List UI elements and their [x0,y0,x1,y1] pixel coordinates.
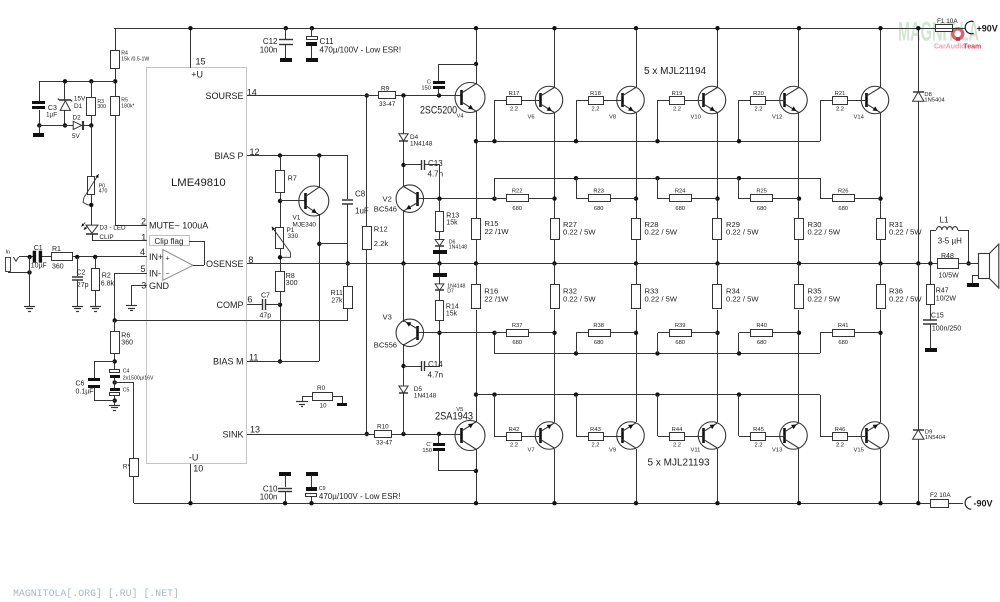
resistor R36 0.22/5W emitter [877,285,886,309]
watermark MAGNITOLA CarAudio Team [898,17,981,51]
wire R7 to V1 base [280,192,282,228]
resistor R29 0.22/5W emitter [713,219,722,240]
transistor V1 MJE340 [299,186,329,216]
transistor V2 BC546 [396,185,424,213]
resistor R23 680 [574,176,578,180]
svg-text:+90V: +90V [977,24,998,34]
svg-text:R8: R8 [286,273,295,280]
svg-text:IN+: IN+ [149,252,163,262]
svg-text:-90V: -90V [974,499,993,509]
resistor R10 33-47 [375,431,392,438]
wire V6 collector to +rail [554,28,556,87]
ground bar under C3 [39,125,41,133]
transistor V10 MJL21194 [698,86,726,114]
svg-text:1N4148: 1N4148 [410,141,433,148]
svg-text:2.2: 2.2 [591,107,599,113]
wire V1 base [280,200,305,202]
ground input jack [24,306,35,308]
transistor V4 2SC5200 [455,83,485,113]
svg-text:V15: V15 [854,448,864,454]
svg-text:680: 680 [594,340,604,346]
transistor V9 MJL21193 [617,422,645,450]
svg-text:Team: Team [964,44,982,51]
svg-text:2.2: 2.2 [754,443,762,449]
potentiometer P1 330 [276,228,284,249]
svg-text:680: 680 [757,340,767,346]
resistor R48 10/5W [938,259,959,269]
svg-text:680: 680 [512,206,522,212]
svg-text:L1: L1 [940,216,949,225]
resistor R15 22/1W [472,219,481,240]
capacitor C10 100n [285,475,287,487]
ground under R2 [90,306,101,308]
resistor R1 360 [52,253,73,261]
wire C4/C5 midpoint to R* [115,382,133,384]
svg-text:BIAS M: BIAS M [213,357,244,367]
wire V1 collector to BIAS P [319,156,321,188]
capacitor C6 0.1uF [94,361,115,363]
svg-text:COMP: COMP [217,300,244,310]
resistor R35 0.22/5W emitter [795,285,804,309]
resistor R42 2.2 base [492,392,496,396]
resistor R20 2.2 base [738,100,740,141]
svg-text:CarAudio: CarAudio [934,44,966,51]
svg-text:−: − [166,271,170,278]
wire left rail y81 [39,81,115,83]
svg-text:R21: R21 [835,91,846,97]
inductor L1 3-5uH [928,261,932,265]
svg-text:R38: R38 [593,323,604,329]
svg-text:IN-: IN- [149,269,161,279]
svg-text:R13: R13 [446,213,459,220]
wire D3 to pin 1 [92,234,94,241]
ground bar R0 right [337,403,347,406]
capacitor C9 470u [311,475,313,487]
svg-text:V11: V11 [691,448,701,454]
wire V9 collector to -rail [636,449,638,503]
resistor R34 0.22/5W emitter [713,285,722,309]
svg-text:R39: R39 [675,323,686,329]
svg-text:R47: R47 [936,288,949,295]
svg-text:15k: 15k [446,220,458,227]
op-amp triangle symbol [163,250,193,281]
svg-text:R1: R1 [52,246,61,253]
wire SOURSE pin 14 [247,95,462,97]
capacitor C12 100n [284,26,288,30]
wire V1 emitter down [319,214,321,361]
svg-text:680: 680 [838,340,848,346]
svg-text:6.8k: 6.8k [101,281,115,288]
transistor V14 MJL21194 [861,86,889,114]
svg-text:R6: R6 [121,333,130,340]
resistor R2 6.8k [95,257,97,268]
resistor R25 680 [737,176,741,180]
diode D6 1N4148 [439,231,441,240]
svg-text:4.7n: 4.7n [428,371,444,380]
svg-text:R22: R22 [512,189,523,195]
capacitor C2 27p [77,257,79,276]
wire V2 base to 680 bus [418,198,494,200]
svg-text:33-47: 33-47 [379,101,396,108]
wire jack sleeve to ground [8,271,10,273]
svg-text:2x1500µ/16V: 2x1500µ/16V [123,376,154,382]
svg-text:C1: C1 [34,245,43,252]
resistor R40 680 [737,351,741,355]
svg-text:D2: D2 [73,115,82,122]
wire V3 emitter to output bus [403,263,405,322]
svg-text:F1 10A: F1 10A [937,18,958,25]
capacitor C8 1uF [347,156,349,199]
wire V12 collector to +rail [798,28,800,87]
resistor R32 0.22/5W emitter [551,285,560,309]
wire V8 collector to +rail [636,28,638,87]
capacitor C11 470u [310,26,314,30]
svg-text:360: 360 [121,340,133,347]
svg-text:In: In [6,250,10,256]
svg-text:2.2k: 2.2k [374,239,389,248]
resistor R3 300 [89,79,93,83]
svg-text:15k /0.5-1W: 15k /0.5-1W [121,57,149,63]
svg-text:R18: R18 [590,91,601,97]
svg-text:C5: C5 [123,388,130,394]
wire V14 collector to +rail [880,28,882,87]
ground bar above C9 [306,472,318,476]
svg-text:33-47: 33-47 [376,440,393,447]
wire V2 emitter to output bus [403,210,405,263]
svg-text:R26: R26 [838,189,849,195]
svg-text:R24: R24 [675,189,686,195]
svg-text:V3: V3 [383,313,392,322]
wire BIAS M pin 11 [247,361,319,363]
wire V6 emitter [554,113,556,218]
svg-text:10/5W: 10/5W [939,273,960,280]
resistor R16 22/1W [472,285,481,309]
svg-text:0.22 / 5W: 0.22 / 5W [726,295,759,304]
svg-text:R*: R* [123,464,131,471]
svg-text:0.22 / 5W: 0.22 / 5W [808,295,841,304]
svg-text:F2 10A: F2 10A [930,492,951,499]
svg-text:27k: 27k [331,298,343,305]
wire feedback node y320 [115,320,348,322]
wire input to C1 [19,256,33,258]
svg-text:R19: R19 [672,91,683,97]
svg-text:4: 4 [140,247,145,257]
resistor R6 360 [114,320,116,331]
svg-text:3-5 µH: 3-5 µH [938,237,962,246]
resistor R31 0.22/5W emitter [877,219,886,240]
svg-text:R40: R40 [756,323,767,329]
resistor R21 2.2 base [820,100,822,141]
svg-text:C6: C6 [76,380,85,387]
svg-text:150: 150 [422,448,432,454]
wire V10 emitter [717,113,719,218]
wire PNP 680 sense bus [494,353,820,355]
wire +90V top rail [114,28,936,30]
svg-text:10/2W: 10/2W [936,296,957,303]
svg-text:OSENSE: OSENSE [206,259,244,269]
svg-text:1N4148: 1N4148 [449,245,467,251]
wire PNP base drive bus [476,394,820,396]
svg-text:R48: R48 [941,253,954,260]
capacitor C15 100n/250 [930,305,932,320]
transistor V3 BC556 [396,319,424,347]
svg-text:5 x MJL21194: 5 x MJL21194 [644,66,707,77]
svg-text:100n: 100n [260,493,278,502]
resistor R43 2.2 base [574,392,578,396]
svg-text:C4: C4 [123,369,130,375]
capacitor C5 1500u [110,388,120,391]
svg-text:47p: 47p [260,313,272,320]
resistor R13 15k [439,199,441,212]
transistor V15 MJL21193 [861,422,889,450]
wire V7 collector to -rail [554,449,556,503]
svg-text:2.2: 2.2 [510,443,518,449]
svg-text:2.2: 2.2 [673,107,681,113]
svg-text:0.22 / 5W: 0.22 / 5W [808,228,841,237]
svg-text:D3 - LED: D3 - LED [99,224,126,231]
wire V14 emitter [880,113,882,218]
LED D3 clip indicator [86,225,98,233]
capacitor C' 150 V5 base-collector [439,470,476,472]
resistor R24 680 [655,176,659,180]
zener diode D1 15V [64,81,66,100]
wire -90V bottom rail [134,503,930,505]
resistor R4 15k/0.5-1W [111,51,120,69]
svg-text:0.22 / 5W: 0.22 / 5W [889,228,922,237]
svg-text:22 /1W: 22 /1W [485,227,510,236]
resistor R14 15k [439,290,441,300]
wire IN- pin 5 feedback [115,273,147,275]
resistor R7 [280,156,282,171]
wire V10 collector to +rail [717,28,719,87]
transistor V13 MJL21193 [780,422,808,450]
transistor V12 MJL21194 [780,86,808,114]
wire V5 collector to bottom rail [476,449,478,503]
svg-text:V5: V5 [456,407,463,413]
svg-text:680: 680 [838,206,848,212]
wire COMP pin 6 with C7 [247,304,262,306]
ground bar under C11 [306,58,318,62]
diode D8 1N5404 [918,28,920,92]
resistor R33 0.22/5W emitter [632,285,641,309]
fuse F1 10A [936,25,953,32]
svg-text:680: 680 [594,206,604,212]
wire R4 to junction [115,68,117,97]
op-amp U1 LME49810 IC box [147,68,247,464]
wire V13 collector to -rail [798,449,800,503]
svg-text:SOURSE: SOURSE [205,91,243,101]
resistor R41 680 [820,333,822,353]
resistor R22 680 [494,198,506,200]
wire R5 to MUTE pin 2 [115,116,117,225]
wire speaker to ground bar [972,275,978,277]
ground pin 3 [126,305,137,307]
potentiometer P0 470 [91,125,93,176]
resistor R11 27k [346,261,350,265]
svg-text:CLIP: CLIP [99,234,113,241]
svg-text:27p: 27p [77,282,89,289]
svg-text:R45: R45 [753,427,764,433]
svg-text:1N5404: 1N5404 [924,98,945,104]
resistor R* [130,459,139,477]
svg-text:V4: V4 [457,114,465,120]
svg-text:150: 150 [421,86,431,92]
svg-text:V2: V2 [383,195,392,204]
diode D7 1N4148 [439,276,441,284]
svg-text:15: 15 [196,57,206,67]
svg-text:V9: V9 [609,448,616,454]
ground bar under C15 [925,348,937,352]
resistor R12 2.2k [366,96,368,226]
svg-text:R42: R42 [509,427,520,433]
resistor R18 2.2 base [576,100,578,141]
svg-text:MUTE~ 100uA: MUTE~ 100uA [149,221,208,231]
wire SINK pin 13 [247,434,462,436]
resistor R0 10 [313,393,333,401]
svg-text:4.7n: 4.7n [428,170,444,179]
terminal +90V [965,21,973,33]
resistor R28 0.22/5W emitter [632,219,641,240]
svg-text:13: 13 [250,425,260,435]
svg-text:R46: R46 [835,427,846,433]
svg-text:V1: V1 [293,215,301,222]
svg-text:R10: R10 [377,424,389,431]
svg-text:2SC5200: 2SC5200 [420,105,457,117]
capacitor C1 10uF [33,251,36,263]
svg-text:470µ/100V - Low ESR!: 470µ/100V - Low ESR! [320,46,402,55]
svg-text:100n/250: 100n/250 [932,326,961,333]
resistor R17 2.2 base [494,100,496,141]
svg-text:V6: V6 [528,114,535,120]
wire +U pin 15 [190,28,192,68]
svg-text:V14: V14 [854,114,865,120]
svg-text:300: 300 [97,104,106,110]
svg-text:100n: 100n [260,46,278,55]
wire NPN base drive bus [476,141,820,143]
svg-text:SINK: SINK [222,430,243,440]
wire clip flag to op-amp output [189,241,204,243]
svg-text:2.2: 2.2 [591,443,599,449]
clip flag box [150,236,190,246]
svg-text:R11: R11 [331,290,343,297]
svg-text:0.22 / 5W: 0.22 / 5W [645,295,678,304]
resistor R45 2.2 base [737,392,741,396]
svg-text:C14: C14 [428,360,443,369]
svg-text:R14: R14 [446,304,459,311]
svg-text:5V: 5V [72,133,81,140]
wire V12 emitter [798,113,800,218]
capacitor C14 4.7n [403,344,405,386]
svg-text:R25: R25 [756,189,767,195]
transistor V11 MJL21193 [698,422,726,450]
svg-text:10: 10 [320,403,328,410]
svg-text:680: 680 [675,206,685,212]
svg-text:0.1µF: 0.1µF [76,389,94,396]
svg-text:1N5404: 1N5404 [925,435,946,441]
svg-text:R17: R17 [509,91,520,97]
svg-text:MAGNITOLA[.ORG] [.RU] [.NET]: MAGNITOLA[.ORG] [.RU] [.NET] [13,588,179,599]
capacitor C13 4.7n [404,164,421,166]
wire V3 base to 680 bus [418,332,494,334]
wire -U pin 10 [190,464,192,503]
resistor R38 680 [574,351,578,355]
resistor R27 0.22/5W emitter [551,219,560,240]
svg-text:V10: V10 [691,114,701,120]
capacitor C7 47p [262,299,264,310]
svg-text:-U: -U [189,453,199,463]
svg-text:680: 680 [675,340,685,346]
svg-text:D7: D7 [447,289,454,295]
svg-text:R41: R41 [838,323,849,329]
svg-text:V7: V7 [528,448,535,454]
svg-text:BIAS P: BIAS P [214,151,243,161]
capacitor C3 1uF [39,81,41,101]
svg-text:15k: 15k [446,311,458,318]
transistor V8 MJL21194 [617,86,645,114]
svg-text:D1: D1 [74,103,83,110]
svg-text:R7: R7 [288,176,297,183]
svg-text:10: 10 [193,464,203,474]
svg-text:V12: V12 [772,114,782,120]
terminal -90V [965,497,971,509]
svg-text:2.2: 2.2 [836,107,844,113]
svg-text:15V: 15V [74,96,86,103]
svg-text:470µ/100V - Low ESR!: 470µ/100V - Low ESR! [319,492,401,501]
svg-text:LME49810: LME49810 [171,177,226,189]
svg-text:2.2: 2.2 [836,443,844,449]
resistor R44 2.2 base [655,392,659,396]
svg-text:R2: R2 [102,273,111,280]
svg-text:R23: R23 [593,189,604,195]
transistor V6 MJL21194 [535,86,563,114]
svg-text:GND: GND [149,281,170,291]
svg-text:V8: V8 [609,114,616,120]
wire NPN 680 sense bus [494,178,820,180]
svg-text:1µF: 1µF [46,112,57,119]
svg-text:R12: R12 [374,225,388,234]
svg-text:0.22 / 5W: 0.22 / 5W [645,228,678,237]
svg-text:0.22 / 5W: 0.22 / 5W [726,228,759,237]
svg-text:V13: V13 [772,448,782,454]
speaker [979,254,990,279]
svg-text:5: 5 [141,264,146,274]
svg-text:C15: C15 [931,313,944,320]
resistor R30 0.22/5W emitter [795,219,804,240]
svg-text:+: + [166,256,170,263]
svg-text:0.22 / 5W: 0.22 / 5W [563,295,596,304]
wire V4 collector to rail [476,28,478,84]
svg-text:5 x MJL21193: 5 x MJL21193 [648,458,711,469]
wire R1 to IN+ pin 4 [73,256,147,258]
capacitor C4 1500u [110,370,120,373]
wire BIAS P pin 12 [247,155,348,157]
bar above D7 [439,263,441,273]
diode D5 1N4148 [399,386,408,393]
svg-text:C9: C9 [319,486,326,492]
wire V8 emitter [636,113,638,218]
wire y125 D1/D2 row [39,125,91,127]
wire GND pin 3 to ground [131,285,147,287]
ground bar above C10 [279,472,291,476]
resistor R9 33-47 [379,92,396,99]
svg-text:180k*: 180k* [121,104,134,110]
svg-text:1N4148: 1N4148 [414,393,437,400]
svg-text:BC556: BC556 [374,341,397,350]
diode D2 5V [73,121,81,129]
svg-text:R37: R37 [512,323,523,329]
resistor R47 10/2W [930,263,932,285]
resistor R5 180k [111,97,120,116]
